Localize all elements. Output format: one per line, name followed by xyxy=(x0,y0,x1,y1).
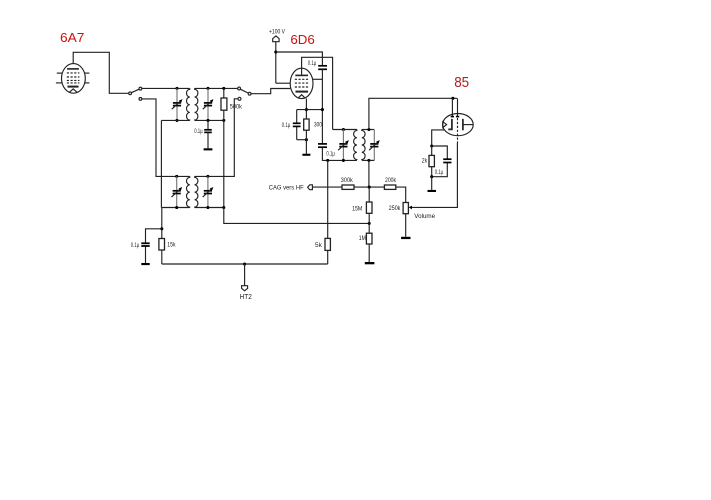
wire 85 cathode lead xyxy=(432,130,445,146)
wire S1 lower contact to T2 primary top xyxy=(142,99,190,176)
wire 5k to bottom rail xyxy=(327,250,329,264)
tube 6A7 grid row 2 xyxy=(67,76,80,78)
AVC pickup contact circle xyxy=(238,97,241,100)
wire T3 secondary top rail xyxy=(362,129,375,131)
capacitor 0.1u 85 cathode: wires xyxy=(432,146,448,159)
wire T1 primary top rail xyxy=(142,87,190,89)
trimmer capacitor T2 secondary arrow xyxy=(203,188,212,197)
svg-text:5k: 5k xyxy=(315,242,322,249)
wire 5k branch from T3 xyxy=(327,160,329,238)
node 85 diode pins junction xyxy=(451,97,454,100)
tube 6A7 right pin lower xyxy=(85,82,90,84)
inductor T1 secondary winding xyxy=(195,88,198,120)
tube 6A7 cathode bar xyxy=(68,86,79,88)
wire HT2 stub xyxy=(244,264,246,286)
tube 6A7 left pin upper xyxy=(57,72,63,74)
node HT2 junction xyxy=(243,262,246,265)
wire 6D6 anode to T3 xyxy=(302,57,333,129)
svg-text:300k: 300k xyxy=(341,177,354,184)
trimmer capacitor T3 primary plates xyxy=(339,143,347,145)
switch S1 upper contact xyxy=(139,87,142,90)
wire CAG to 300k xyxy=(312,186,342,188)
svg-text:0.1µ: 0.1µ xyxy=(435,169,444,176)
potentiometer 250k wiper arrow xyxy=(409,206,412,210)
svg-text:500k: 500k xyxy=(230,104,243,111)
wire T3 secondary top to 85 diode line xyxy=(369,98,457,129)
node 6D6 cathode top junction xyxy=(305,108,308,111)
trimmer capacitor T2 primary arrow xyxy=(172,188,181,197)
svg-text:0.1µ: 0.1µ xyxy=(308,60,317,67)
node T1 secondary bottom trimmer junction xyxy=(206,119,209,122)
capacitor 0.1u cathode bypass plates xyxy=(293,122,301,124)
trimmer capacitor T1 secondary plates xyxy=(204,102,212,104)
node T1 primary top trimmer junction xyxy=(175,87,178,90)
svg-text:HT2: HT2 xyxy=(240,294,252,301)
svg-text:300: 300 xyxy=(314,122,322,129)
node T2 secondary bottom right junction xyxy=(222,206,225,209)
tube 6D6 cathode bar xyxy=(296,91,309,93)
tube 6D6 anode plate xyxy=(295,74,308,76)
switch S2 left contact xyxy=(238,87,241,90)
wire 200k to volume pot xyxy=(396,187,406,202)
wire T1 primary bottom rail xyxy=(161,119,189,121)
ground below T1 secondary cap xyxy=(204,148,213,150)
node T1 primary bottom trimmer junction xyxy=(175,119,178,122)
resistor 200k xyxy=(384,185,395,189)
node T3 primary bottom trimmer junction xyxy=(342,159,345,162)
wire T3 secondary bottom rail xyxy=(362,159,375,161)
trimmer capacitor T1 primary arrow xyxy=(172,100,181,109)
wire AVC line from T2 to divider xyxy=(224,208,369,224)
wire 85 cathode to ground xyxy=(431,177,433,190)
wire cathode network top xyxy=(297,109,323,111)
wire 6D6 screen grid lead right xyxy=(313,78,322,80)
node T3 primary top trimmer junction xyxy=(342,128,345,131)
node T1 secondary top 500k junction xyxy=(222,87,225,90)
svg-text:15k: 15k xyxy=(167,242,176,249)
trimmer capacitor T1 primary plates xyxy=(173,102,181,104)
ground 85 cathode xyxy=(428,190,437,192)
tube 6D6 grid row 1 xyxy=(295,78,309,80)
switch S2 blade xyxy=(240,89,248,93)
node grid divider junction xyxy=(368,186,371,189)
wire T3 secondary bottom to AVC divider xyxy=(368,160,370,187)
wire T2 secondary bottom rail xyxy=(195,207,224,209)
tube 85 anode lead xyxy=(463,124,473,126)
wire cathode to ground xyxy=(305,130,307,154)
wire T1 secondary bottom rail xyxy=(195,119,224,121)
trimmer capacitor T3 secondary arrow xyxy=(369,141,378,150)
node T1 secondary top trimmer junction xyxy=(206,87,209,90)
wire decoupling cap down to screen lead xyxy=(321,69,323,144)
inductor T3 secondary winding xyxy=(362,130,365,160)
tube 85 grid dashed xyxy=(457,118,459,143)
capacitor 0.1u below T1 secondary: wire xyxy=(207,120,209,129)
node 85 cathode bottom junction xyxy=(430,175,433,178)
switch S1 left contact xyxy=(129,92,132,95)
ground at 15k cap xyxy=(141,263,149,265)
trimmer capacitor T1 secondary arrow xyxy=(203,100,212,109)
trimmer capacitor T2 secondary plates xyxy=(204,190,212,192)
node 0.1u tap junction xyxy=(160,227,163,230)
node +100V rail junction xyxy=(274,50,277,53)
capacitor 0.1u below T1 plates xyxy=(204,129,212,131)
wire +100V down xyxy=(275,42,277,83)
trimmer capacitor T1 primary: wire xyxy=(176,88,178,102)
trimmer capacitor T3 primary arrow xyxy=(338,141,347,150)
ground 6D6 cathode xyxy=(302,154,310,156)
wire 6A7 anode up xyxy=(73,52,129,93)
trimmer capacitor T3 primary: wire xyxy=(342,130,344,144)
tube 85 cathode triangle xyxy=(443,122,447,128)
wire T1 secondary top rail xyxy=(195,87,238,89)
tube 6D6 heater xyxy=(298,95,305,99)
terminal +100V xyxy=(273,36,279,42)
svg-text:0.1µ: 0.1µ xyxy=(194,128,203,135)
node T1 secondary bottom 500k junction xyxy=(222,119,225,122)
trimmer capacitor T2 secondary: wire xyxy=(207,176,209,190)
svg-text:6D6: 6D6 xyxy=(290,32,314,47)
wire 15k branch from T2 xyxy=(161,208,163,239)
tube 85 diode plate bar xyxy=(448,119,452,129)
resistor 15k xyxy=(159,239,165,251)
svg-text:0.1µ: 0.1µ xyxy=(282,122,291,129)
tube 6D6 envelope xyxy=(290,68,313,98)
switch S1 lower contact xyxy=(139,98,142,101)
wire +100V to 6D6 screen left xyxy=(276,82,291,84)
tube 6A7 envelope xyxy=(62,64,86,94)
resistor 15M xyxy=(368,187,370,202)
svg-text:+100 V: +100 V xyxy=(269,29,286,36)
tube 6D6 grid row 2 xyxy=(295,82,309,84)
wire pot bottom to ground xyxy=(405,214,407,237)
tube 85 diode pin 1 xyxy=(451,98,453,116)
trimmer capacitor T2 primary: wire xyxy=(176,176,178,190)
wire 300k to junction xyxy=(354,186,384,188)
wire 6D6 cathode down xyxy=(305,99,307,120)
svg-text:Volume: Volume xyxy=(414,213,435,220)
wire 85 grid down to volume wiper xyxy=(412,143,458,207)
wire +100V rail to decoupling cap xyxy=(276,52,323,65)
capacitor 0.1u at 15k: wires xyxy=(146,229,162,243)
trimmer capacitor T2 primary plates xyxy=(173,190,181,192)
switch S2 right contact xyxy=(248,92,251,95)
wire S2 to 6D6 control grid xyxy=(251,89,290,94)
wire T3 primary top rail xyxy=(333,129,357,131)
resistor 2k xyxy=(431,146,433,155)
resistor 5k xyxy=(325,238,330,250)
switch S1 blade xyxy=(131,89,139,93)
svg-text:CAG vers HF: CAG vers HF xyxy=(269,185,304,192)
tube 6A7 anode plate xyxy=(67,68,79,70)
tube 6D6 grid row 3 xyxy=(295,86,309,88)
ground 1M xyxy=(365,262,375,264)
wire 500k bottom to T2 secondary bottom xyxy=(223,120,225,207)
tube 85 envelope xyxy=(443,114,474,136)
node T3 secondary bottom junction xyxy=(367,159,370,162)
node T2 primary top trimmer junction xyxy=(175,175,178,178)
inductor T1 primary winding xyxy=(187,88,190,120)
wire T2 secondary top rail to AVC contact xyxy=(195,99,238,177)
wire T3 primary bottom rail xyxy=(323,159,357,161)
wire T1 primary bottom to T2 bottom xyxy=(160,120,162,207)
tube 6A7 grid row 3 xyxy=(67,79,80,81)
resistor 1M xyxy=(368,223,370,233)
node T2 primary bottom trimmer junction xyxy=(175,206,178,209)
node AVC divider junction xyxy=(368,222,371,225)
tube 6A7 grid row 4 xyxy=(67,82,80,84)
potentiometer 250k body xyxy=(403,203,408,214)
svg-text:200k: 200k xyxy=(385,177,397,184)
node T3 primary bottom 5k junction xyxy=(326,159,329,162)
tube 6A7 grid row 1 xyxy=(67,72,80,74)
tube 6A7 right pin upper xyxy=(85,72,90,74)
capacitor 0.1u coupling plates (to T3 bottom) xyxy=(318,143,327,145)
node 85 cathode junction xyxy=(430,144,433,147)
node T3 secondary top junction xyxy=(367,128,370,131)
svg-text:0.1µ: 0.1µ xyxy=(131,242,140,249)
trimmer capacitor T1 secondary: wire xyxy=(207,88,209,102)
svg-text:0.1µ: 0.1µ xyxy=(326,151,335,158)
wire cathode network bottom xyxy=(297,139,307,141)
inductor T2 secondary winding xyxy=(195,176,198,207)
ground 250k pot xyxy=(401,237,410,239)
svg-text:85: 85 xyxy=(454,75,469,91)
wire bottom rail HT2 xyxy=(162,263,328,265)
node T2 secondary top trimmer junction xyxy=(206,175,209,178)
inductor T2 primary winding xyxy=(187,176,190,207)
tube 6A7 heater xyxy=(69,89,77,93)
terminal CAG vers HF xyxy=(308,185,313,190)
svg-text:1M: 1M xyxy=(359,235,366,242)
resistor 500k xyxy=(223,88,225,98)
wire coupling cap down to T3 primary bottom xyxy=(321,147,323,160)
trimmer capacitor T3 secondary: wire xyxy=(373,130,375,144)
node T2 secondary bottom trimmer junction xyxy=(206,206,209,209)
capacitor 0.1u anode decoupling plates xyxy=(318,65,327,67)
capacitor 0.1u at 15k plates xyxy=(141,242,149,244)
svg-text:15M: 15M xyxy=(352,205,362,212)
resistor 300 cathode xyxy=(304,119,309,130)
capacitor 0.1u 85 cathode plates xyxy=(443,158,451,160)
svg-text:6A7: 6A7 xyxy=(60,31,84,45)
tube 85 anode bar xyxy=(462,119,464,130)
resistor 300k xyxy=(342,185,354,189)
inductor T3 primary winding xyxy=(354,130,357,160)
tube 85 diode pin 2 xyxy=(457,98,459,116)
capacitor 0.1u cathode bypass: wires xyxy=(296,110,298,123)
wire T2 primary bottom rail xyxy=(161,207,189,209)
node cathode bottom junction xyxy=(305,138,308,141)
tube 6A7 left pin lower xyxy=(56,82,62,84)
node cathode network right junction xyxy=(321,108,324,111)
tube 85 diode pin ticks xyxy=(451,116,454,118)
terminal HT2 xyxy=(242,286,248,291)
wire 15k to bottom rail xyxy=(161,250,163,264)
trimmer capacitor T3 secondary plates xyxy=(370,143,378,145)
svg-text:250k: 250k xyxy=(389,205,401,212)
svg-text:2k: 2k xyxy=(422,158,428,165)
